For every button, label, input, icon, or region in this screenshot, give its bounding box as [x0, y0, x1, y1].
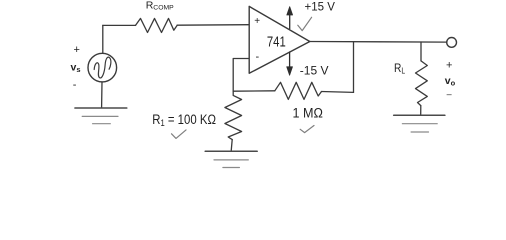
ground under R1	[205, 151, 257, 167]
wire top horizontal to RCOMP	[103, 24, 136, 26]
svg-text:+: +	[74, 44, 80, 56]
svg-text:RL: RL	[394, 62, 405, 75]
checkmark under 1 Mohm	[300, 126, 314, 133]
wire feedback right vertical	[353, 42, 355, 93]
label R1 = 100 Kohm	[152, 112, 216, 128]
+15V supply arrow	[287, 7, 293, 29]
svg-text:+15 V: +15 V	[305, 2, 336, 14]
checkmark under R1 label	[172, 130, 187, 139]
label RL	[394, 62, 405, 75]
resistor Rf 1 Mohm	[275, 82, 322, 99]
wire op-amp minus input to node	[233, 59, 249, 92]
wire feedback resistor to vertical	[322, 91, 354, 94]
svg-text:+: +	[446, 59, 452, 71]
svg-text:vs: vs	[71, 62, 81, 75]
voltage source Vs	[88, 53, 117, 82]
svg-text:+: +	[254, 16, 260, 27]
svg-text:RCOMP: RCOMP	[146, 0, 174, 12]
resistor R1	[225, 91, 242, 139]
label 1 Mohm	[293, 105, 323, 121]
svg-text:-: -	[73, 79, 77, 91]
svg-text:vo: vo	[445, 75, 456, 88]
wire node to feedback resistor	[233, 90, 275, 92]
resistor RL	[416, 61, 428, 106]
output terminal	[447, 38, 457, 48]
wire source top vertical	[102, 25, 104, 53]
wire RL junction vertical	[420, 42, 422, 61]
svg-text:R1 = 100 KΩ: R1 = 100 KΩ	[152, 112, 216, 128]
wire RL to ground	[420, 106, 422, 115]
svg-text:1 MΩ: 1 MΩ	[293, 105, 323, 121]
svg-text:-: -	[256, 51, 260, 63]
ground under RL	[394, 115, 445, 132]
resistor RCOMP	[136, 18, 178, 32]
op-amp U1 741 body	[249, 6, 310, 73]
checkmark near op-amp	[298, 17, 312, 30]
svg-text:-15 V: -15 V	[300, 64, 329, 78]
svg-text:741: 741	[267, 33, 286, 50]
wire R1 to ground	[231, 140, 232, 151]
svg-text:–: –	[447, 89, 452, 99]
wire RCOMP to op-amp + input	[177, 24, 249, 27]
ground under source	[75, 108, 127, 124]
wire op-amp output	[310, 41, 447, 44]
-15V supply arrow	[287, 52, 293, 75]
op-amp label 741	[267, 33, 286, 50]
wire source bottom to ground	[101, 82, 103, 108]
